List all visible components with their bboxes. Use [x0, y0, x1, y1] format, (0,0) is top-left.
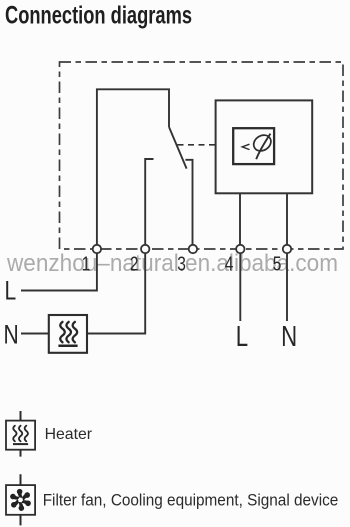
svg-text:wenzhou–natural.en.alibaba.com: wenzhou–natural.en.alibaba.com: [6, 250, 338, 277]
legend heater symbol: [13, 426, 28, 442]
hygrostat U1 outer box: [216, 100, 313, 193]
enclosure dashed boundary box: [60, 62, 344, 249]
heater R1 symbol (3 wavy lines + bar): [60, 322, 77, 342]
terminal 4 circle: [236, 245, 244, 253]
svg-text:1: 1: [82, 252, 91, 275]
svg-text:4: 4: [225, 252, 234, 275]
hygrostat sensor inner box: [233, 128, 274, 164]
legend heater box with stubs: [20, 411, 22, 457]
terminal 3 circle: [189, 245, 197, 253]
legend fan box with stubs: [20, 474, 22, 525]
switch blade (relay contact): [169, 127, 187, 169]
wire: terminal 2 riser with contact tick: [145, 159, 153, 245]
terminal 2 circle: [141, 245, 149, 253]
svg-text:Connection diagrams: Connection diagrams: [5, 2, 192, 29]
svg-text:2: 2: [130, 252, 139, 275]
heater R1 box in circuit: [49, 315, 87, 353]
wire: terminal 2 down, left to heater: [87, 253, 145, 333]
dashed actuator linkage to hygrostat: [178, 144, 216, 146]
legend fan symbol (6-blade impeller): [9, 489, 32, 511]
svg-text:L: L: [236, 321, 248, 352]
svg-text:Filter fan, Cooling equipment,: Filter fan, Cooling equipment, Signal de…: [43, 492, 339, 510]
svg-text:N: N: [281, 321, 297, 352]
wire: hygrostat to terminal 4: [239, 193, 241, 245]
wire: terminal 5 down to load N: [286, 253, 288, 321]
svg-text:Heater: Heater: [45, 426, 92, 443]
svg-text:5: 5: [273, 252, 282, 275]
svg-text:N: N: [4, 320, 19, 350]
wire: terminal 4 down to load L: [239, 253, 241, 321]
svg-text:L: L: [5, 276, 17, 306]
wire: hygrostat to terminal 5: [286, 193, 288, 245]
svg-text:3: 3: [177, 252, 186, 275]
wire: terminal 1 down and left to L supply: [21, 253, 97, 290]
label: less-than phi (humidity setpoint): [242, 144, 249, 149]
wire: terminal 1 riser + switch frame (up, right, down to pivot): [97, 89, 169, 245]
wire: terminal 3 riser with contact tick: [185, 160, 192, 245]
wire: N supply to heater: [21, 333, 49, 335]
terminal 5 circle: [283, 245, 291, 253]
terminal 1 circle: [93, 245, 101, 253]
